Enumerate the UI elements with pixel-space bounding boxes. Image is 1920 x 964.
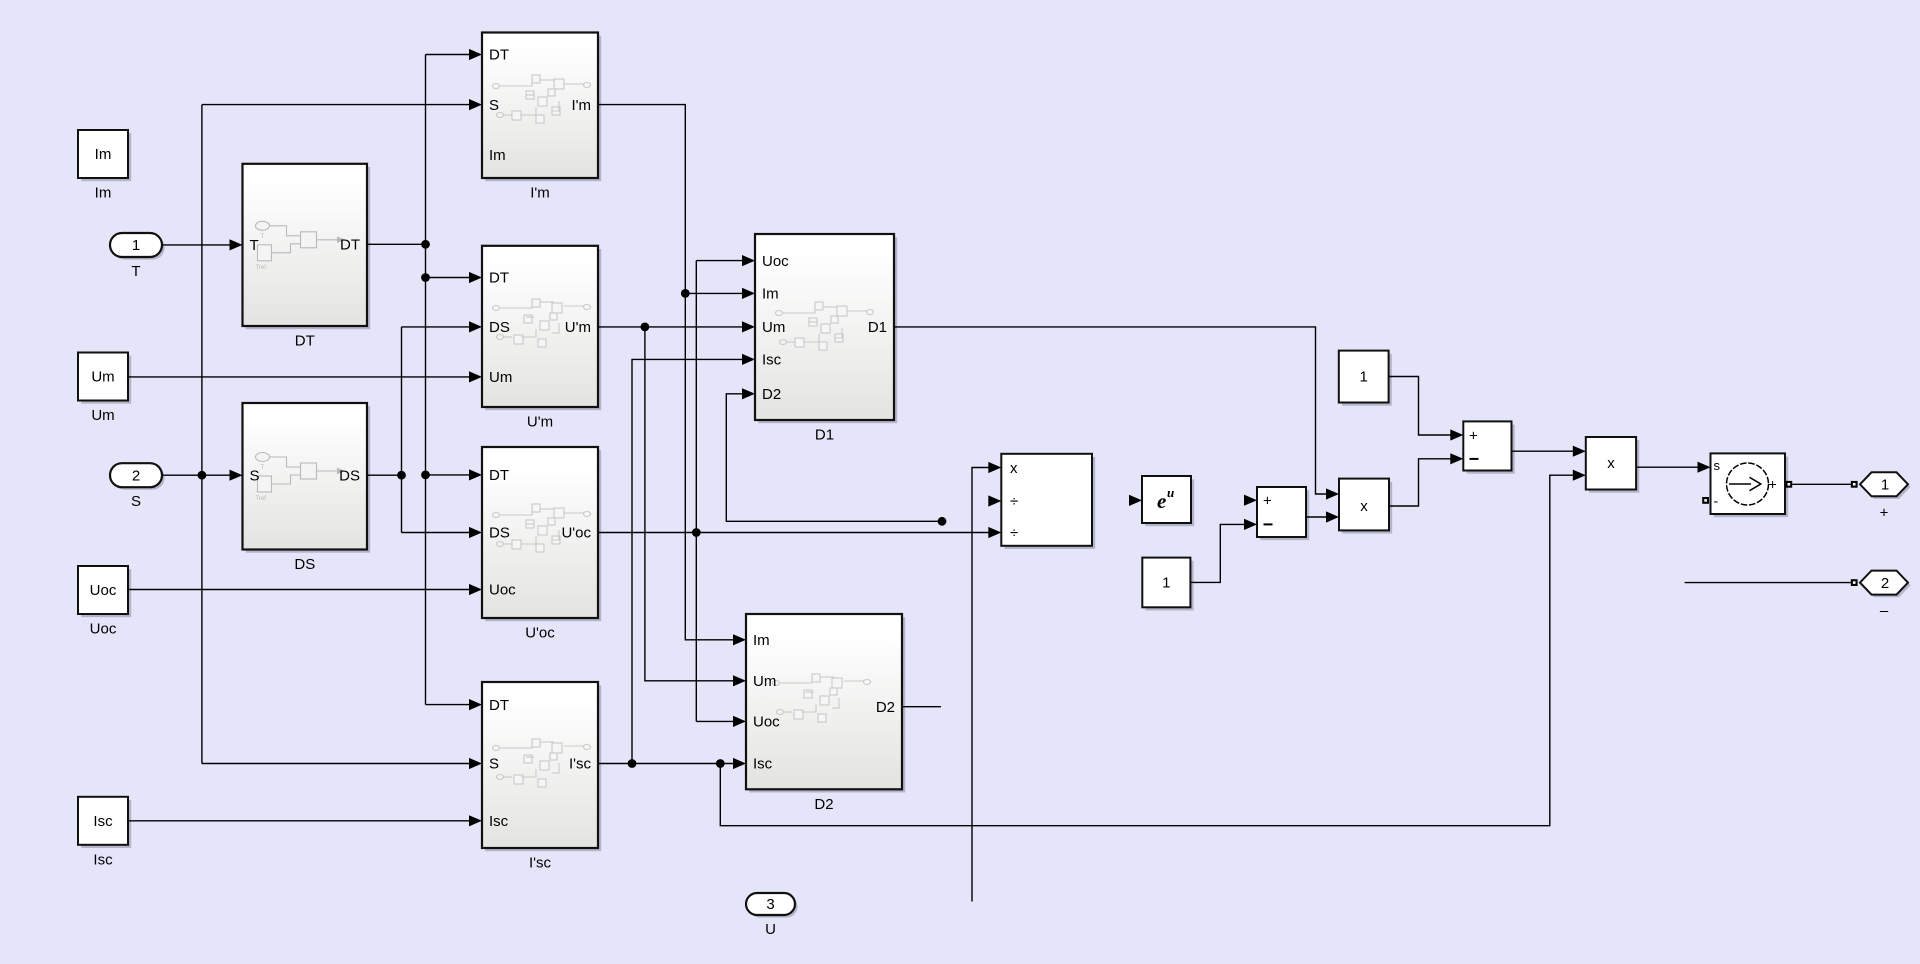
subsystem block I'sc bbox=[482, 682, 601, 872]
wire: U'm branch down to D2 Um bbox=[645, 327, 733, 681]
subsystem block U'oc bbox=[482, 447, 601, 642]
svg-text:Uoc: Uoc bbox=[489, 582, 516, 599]
wire: input 1 (T) to DT bbox=[162, 244, 230, 246]
svg-text:U'oc: U'oc bbox=[561, 525, 591, 542]
math exp block e^u bbox=[1142, 476, 1194, 526]
svg-text:Um: Um bbox=[753, 673, 776, 690]
arrowhead: e^u input (unconnected) bbox=[1129, 495, 1142, 506]
svg-text:I'm: I'm bbox=[530, 185, 550, 202]
junction: I'sc out to D1 bbox=[628, 759, 637, 768]
wire: constant 1 (lower) to Add1 minus bbox=[1190, 524, 1244, 582]
svg-text:1: 1 bbox=[1360, 369, 1368, 386]
svg-text:+: + bbox=[1880, 504, 1889, 521]
svg-text:Uoc: Uoc bbox=[90, 582, 117, 599]
wire: dangling line to output port 2 bbox=[1685, 582, 1851, 584]
wire: Product2 output to voltage source s bbox=[1636, 466, 1698, 468]
wire: DT column to U'm DT bbox=[426, 277, 470, 279]
wire: I'sc output to D2 Isc bbox=[598, 763, 733, 765]
svg-text:Um: Um bbox=[489, 369, 512, 386]
controlled voltage source bbox=[1702, 453, 1792, 517]
wire: U'oc branch column bbox=[695, 261, 697, 722]
wire: DT column to U'oc DT bbox=[426, 474, 470, 476]
svg-text:DS: DS bbox=[489, 525, 510, 542]
svg-text:x: x bbox=[1360, 498, 1368, 515]
junction: dangling end dot bbox=[938, 517, 947, 526]
svg-text:u: u bbox=[1167, 485, 1174, 500]
junction: S wire branch bbox=[198, 471, 207, 480]
svg-text:DT: DT bbox=[489, 47, 509, 64]
product block x-div-div bbox=[1001, 454, 1095, 549]
svg-text:D1: D1 bbox=[868, 319, 887, 336]
wire: branch to D1 Im bbox=[685, 292, 742, 294]
wire: dangling column into divider input 1 (x) bbox=[972, 468, 989, 902]
svg-text:Isc: Isc bbox=[93, 851, 113, 868]
svg-text:Uoc: Uoc bbox=[753, 714, 780, 731]
svg-text:D2: D2 bbox=[762, 386, 781, 403]
source block Uoc bbox=[78, 566, 131, 638]
svg-text:2: 2 bbox=[1881, 575, 1889, 592]
product block Product2 bbox=[1586, 437, 1640, 493]
svg-text:Isc: Isc bbox=[753, 756, 773, 773]
output port 2 (-) bbox=[1851, 571, 1911, 620]
subsystem block U'm bbox=[482, 246, 601, 431]
junction: DT column at U'oc DT bbox=[421, 471, 430, 480]
svg-text:–: – bbox=[1880, 603, 1889, 620]
svg-text:1: 1 bbox=[1881, 477, 1889, 494]
svg-text:U'm: U'm bbox=[565, 319, 591, 336]
constant block 1 (lower) bbox=[1142, 558, 1193, 611]
subsystem block I'm bbox=[482, 33, 601, 202]
wire: U'oc branch to D1 Uoc bbox=[696, 260, 742, 262]
constant block 1 (upper) bbox=[1339, 351, 1392, 406]
svg-text:DT: DT bbox=[489, 697, 509, 714]
svg-text:Uoc: Uoc bbox=[762, 253, 789, 270]
wire: DT output to junction column bbox=[367, 243, 426, 245]
svg-text:DT: DT bbox=[340, 237, 360, 254]
svg-text:DT: DT bbox=[295, 333, 315, 350]
subsystem block DT bbox=[243, 164, 371, 350]
wire: DT distribution column bbox=[425, 55, 427, 705]
svg-text:I'sc: I'sc bbox=[569, 756, 592, 773]
svg-text:I'sc: I'sc bbox=[529, 855, 552, 872]
arrowhead: divider input 2 (unconnected) bbox=[988, 495, 1001, 506]
wire: I'sc branch up to D1 Isc bbox=[632, 359, 742, 763]
svg-text:DS: DS bbox=[489, 319, 510, 336]
wire: DT column to I'sc DT bbox=[426, 704, 470, 706]
svg-text:3: 3 bbox=[766, 896, 774, 913]
input port 2 (S) bbox=[110, 463, 165, 510]
subsystem block D1 bbox=[755, 234, 897, 444]
svg-text:÷: ÷ bbox=[1010, 493, 1018, 510]
svg-text:Um: Um bbox=[762, 319, 785, 336]
svg-text:÷: ÷ bbox=[1010, 525, 1018, 542]
wire: DS column to U'm DS bbox=[402, 326, 470, 328]
svg-text:D2: D2 bbox=[814, 796, 833, 813]
junction: U'm out branch bbox=[641, 323, 650, 332]
wire: Um source to U'm Um bbox=[128, 376, 470, 378]
junction: DT out bbox=[421, 240, 430, 249]
svg-text:DT: DT bbox=[489, 467, 509, 484]
svg-text:Im: Im bbox=[95, 146, 112, 163]
svg-text:e: e bbox=[1157, 489, 1166, 513]
wire: Isc source to I'sc Isc bbox=[128, 820, 470, 822]
arrowhead: Add1 plus input (unconnected) bbox=[1244, 495, 1257, 506]
svg-text:Uoc: Uoc bbox=[90, 621, 117, 638]
svg-text:+: + bbox=[1469, 428, 1478, 445]
svg-text:D1: D1 bbox=[815, 427, 834, 444]
junction: DT column at U'm DT bbox=[421, 273, 430, 282]
svg-text:Tref: Tref bbox=[256, 496, 267, 502]
svg-text:U'oc: U'oc bbox=[525, 625, 555, 642]
product block Product1 bbox=[1339, 479, 1392, 534]
svg-text:S: S bbox=[489, 97, 499, 114]
wire: S column to I'm S bbox=[202, 104, 469, 106]
svg-text:Isc: Isc bbox=[93, 813, 113, 830]
wire: U'oc output to divider input 3 bbox=[598, 532, 989, 534]
junction: U'oc out cross bbox=[692, 528, 701, 537]
svg-text:S: S bbox=[489, 756, 499, 773]
wire: DS output bbox=[367, 474, 402, 476]
wire: U'oc branch to D2 Uoc bbox=[696, 720, 733, 722]
svg-text:D2: D2 bbox=[876, 699, 895, 716]
wire: DS distribution column bbox=[401, 327, 403, 533]
junction: I'm column at D1 Im bbox=[681, 289, 690, 298]
svg-text:I'm: I'm bbox=[571, 97, 591, 114]
output port 1 (+) bbox=[1851, 472, 1911, 521]
svg-text:T: T bbox=[250, 237, 259, 254]
svg-text:S: S bbox=[131, 493, 141, 510]
wire: Uoc source to U'oc Uoc bbox=[128, 589, 470, 591]
sum block Add2 bbox=[1463, 421, 1514, 473]
sum block Add1 bbox=[1257, 487, 1309, 540]
svg-text:+: + bbox=[1769, 476, 1777, 492]
svg-text:U'm: U'm bbox=[527, 414, 553, 431]
svg-text:Im: Im bbox=[753, 632, 770, 649]
svg-text:Im: Im bbox=[489, 147, 506, 164]
wire: DS column to U'oc DS bbox=[402, 532, 470, 534]
wire: I'sc long branch to Product2 bbox=[720, 475, 1573, 826]
input port 1 (T) bbox=[110, 233, 165, 280]
wire: Add2 output to Product2 bbox=[1512, 450, 1574, 452]
svg-text:DT: DT bbox=[489, 270, 509, 287]
wire: input 2 (S) to DS bbox=[162, 474, 230, 476]
svg-text:Um: Um bbox=[91, 369, 114, 386]
svg-text:DS: DS bbox=[294, 556, 315, 573]
svg-text:+: + bbox=[1263, 493, 1272, 510]
source block Um bbox=[78, 353, 131, 425]
junction: I'sc out long branch bbox=[716, 759, 725, 768]
wire: I'm output down to D2 Im bbox=[598, 105, 733, 640]
svg-text:T: T bbox=[261, 234, 265, 240]
svg-text:Um: Um bbox=[91, 407, 114, 424]
svg-text:Im: Im bbox=[95, 185, 112, 202]
svg-text:U: U bbox=[765, 921, 776, 938]
svg-text:Isc: Isc bbox=[489, 813, 509, 830]
wire: dangling line into D1 D2 input bbox=[726, 394, 942, 522]
wire: D2 output stub bbox=[902, 706, 941, 708]
svg-text:x: x bbox=[1607, 455, 1615, 472]
wire: D1 output to Product1 bbox=[894, 327, 1326, 494]
svg-text:T: T bbox=[261, 465, 265, 471]
svg-text:Im: Im bbox=[762, 286, 779, 303]
svg-text:x: x bbox=[1010, 460, 1018, 477]
wire: Product1 output to Add2 minus bbox=[1389, 459, 1451, 506]
wire: voltage source + to output port 1 bbox=[1792, 483, 1851, 485]
svg-text:Isc: Isc bbox=[762, 352, 782, 369]
wire: S column to I'sc S bbox=[202, 763, 469, 765]
svg-text:1: 1 bbox=[1162, 575, 1170, 592]
svg-text:-: - bbox=[1714, 493, 1719, 509]
svg-text:s: s bbox=[1714, 458, 1721, 473]
svg-text:Tref: Tref bbox=[256, 265, 267, 271]
wire: S distribution column bbox=[201, 105, 203, 764]
input port 3 (U) bbox=[746, 893, 798, 938]
svg-text:1: 1 bbox=[132, 237, 140, 254]
svg-text:DS: DS bbox=[339, 467, 360, 484]
junction: DS out bbox=[397, 471, 406, 480]
svg-text:2: 2 bbox=[132, 467, 140, 484]
wire: DT column to I'm DT bbox=[426, 54, 470, 56]
svg-text:S: S bbox=[250, 467, 260, 484]
wire: Add1 output to Product1 bbox=[1306, 516, 1326, 518]
wire: U'm output to D1 Um bbox=[598, 326, 742, 328]
source block Isc bbox=[78, 797, 131, 869]
svg-text:T: T bbox=[131, 263, 140, 280]
subsystem block DS bbox=[243, 403, 371, 573]
subsystem block D2 bbox=[746, 614, 905, 813]
source block Im bbox=[78, 130, 131, 202]
wire: constant 1 (upper) to Add2 plus bbox=[1389, 377, 1451, 436]
